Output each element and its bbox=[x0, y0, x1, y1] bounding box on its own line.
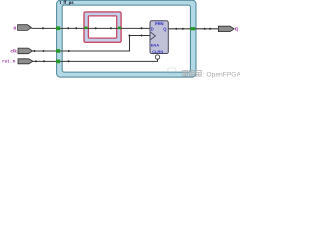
flip-flop U2 (DFF cell) bbox=[150, 21, 168, 54]
wire net rst_n (port rst_n to FF CLRN bubble) bbox=[33, 59, 158, 61]
svg-text:PRN: PRN bbox=[155, 21, 164, 26]
svg-text:clk: clk bbox=[10, 48, 17, 53]
hierarchy pin (green) on outer box left edge, net a bbox=[56, 26, 60, 30]
hierarchy pin (green) on outer box left edge, net clk bbox=[56, 49, 60, 53]
svg-text:CLRN: CLRN bbox=[152, 49, 163, 54]
DFF clock triangle bbox=[151, 32, 156, 39]
hierarchy pin (green) on magenta box right edge, net a bbox=[118, 27, 121, 30]
hierarchy pin (green) on magenta box left edge, net a bbox=[84, 27, 87, 30]
svg-text:rst_n: rst_n bbox=[2, 58, 16, 63]
wire net q (FF Q pin to port q) bbox=[168, 28, 218, 30]
svg-text:ENA: ENA bbox=[151, 43, 160, 48]
watermark text: WeChat-ID OpenFPGA bbox=[183, 70, 242, 78]
DFF CLRN active-low bubble bbox=[155, 55, 159, 59]
watermark icon bbox=[168, 68, 176, 74]
input port rst_n bbox=[18, 59, 33, 64]
hierarchy pin (green) on outer box right edge, net q bbox=[191, 27, 196, 30]
input port a bbox=[18, 25, 32, 31]
output port q bbox=[218, 26, 234, 31]
svg-text:: OpenFPGA: : OpenFPGA bbox=[203, 71, 240, 78]
svg-text:q: q bbox=[235, 26, 238, 32]
svg-text:t_ff_ps: t_ff_ps bbox=[60, 0, 75, 5]
wire vertex dots bbox=[33, 27, 211, 62]
hierarchical module box U_TOP (outer cyan box) bbox=[57, 0, 196, 77]
DFF PRN label badge bbox=[155, 21, 164, 25]
wire net a (port a to FF D pin) bbox=[31, 27, 150, 29]
svg-text:D: D bbox=[151, 27, 154, 32]
hierarchy pin (green) on outer box left edge, net rst_n bbox=[56, 60, 60, 64]
hierarchical module box U1 (inner magenta box) bbox=[84, 12, 121, 42]
input port clk bbox=[18, 48, 33, 54]
wire net clk (port clk to FF clock pin) bbox=[33, 36, 151, 52]
svg-text:a: a bbox=[13, 26, 16, 32]
